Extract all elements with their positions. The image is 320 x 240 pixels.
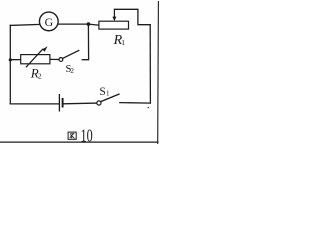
battery cell short plate <box>62 98 64 108</box>
wire bottom right from S1 contact to right rail <box>120 102 151 105</box>
wire right rail <box>149 25 151 103</box>
svg-text:2: 2 <box>38 72 42 81</box>
switch S1 arm <box>101 94 120 102</box>
wire R2 entry from left rail <box>10 59 20 61</box>
rheostat R1 <box>99 21 129 29</box>
border bottom rule <box>0 141 158 143</box>
svg-text:1: 1 <box>121 38 125 47</box>
wire R1 slider tap <box>114 9 150 24</box>
variable resistor R2 <box>21 55 50 64</box>
junction node <box>87 22 91 26</box>
galvanometer G <box>39 12 58 31</box>
junction node left rail <box>9 58 12 61</box>
switch S1 pivot <box>97 101 101 105</box>
variable resistor R2 arrow <box>26 46 48 67</box>
wire S2 contact drop from junction <box>82 24 88 60</box>
wire battery to S1 pivot <box>63 102 97 105</box>
border right edge <box>157 2 160 144</box>
svg-text:2: 2 <box>70 67 74 75</box>
wire left rail <box>9 25 11 104</box>
wire bottom left to battery <box>10 103 59 105</box>
wire R2 to S2 pivot <box>51 58 59 60</box>
svg-text:S: S <box>99 86 105 98</box>
battery cell long plate <box>58 94 60 112</box>
svg-text:G: G <box>45 15 54 29</box>
switch S2 pivot <box>59 58 63 62</box>
switch S2 arm <box>63 50 80 58</box>
svg-text:10: 10 <box>81 126 93 145</box>
figure caption glyph 图 <box>68 132 76 139</box>
speck <box>148 107 150 109</box>
svg-text:1: 1 <box>106 90 110 98</box>
wire top from left corner through G to junction and R1 <box>10 24 99 25</box>
rheostat R1 slider arrow <box>112 10 116 22</box>
